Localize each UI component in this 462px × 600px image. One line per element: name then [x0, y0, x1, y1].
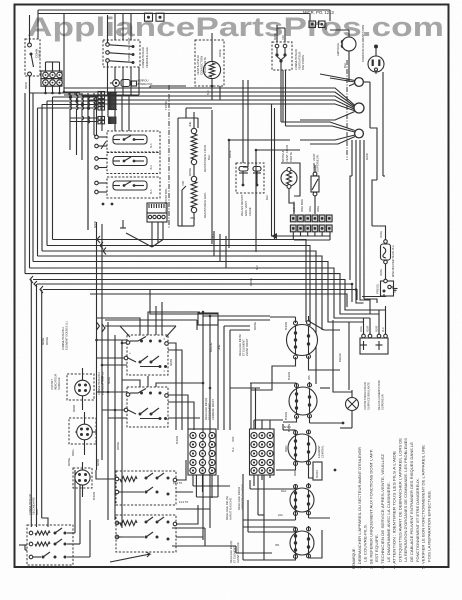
wire element central links	[283, 424, 322, 480]
label REGLAGE bottom	[229, 541, 240, 563]
wire element2 links	[230, 372, 343, 432]
wire bottom boxes links	[96, 460, 296, 560]
power relay RELAIS ALIMENTATION	[360, 310, 388, 354]
wire element1 loop	[251, 317, 340, 390]
mini circuit breaker	[372, 226, 395, 279]
relay K1	[95, 131, 160, 152]
wire press links	[360, 294, 386, 314]
oven control connector P1	[126, 203, 167, 247]
oven control boundary	[164, 85, 169, 228]
secondary switch COMMUTATEUR SECONDAIRE	[27, 494, 73, 565]
wire switch box risers	[96, 302, 203, 430]
node N	[354, 103, 364, 113]
infinite switch box SW2	[124, 387, 168, 427]
vent switch COMM. VENT.	[311, 153, 320, 214]
surface element bottom 2	[275, 513, 314, 560]
door switch S2	[156, 13, 164, 21]
wire secondary links	[67, 470, 150, 562]
wire centre risers	[203, 312, 270, 540]
wire connector arrow	[271, 232, 330, 240]
surface element AVANT DROIT	[287, 316, 341, 359]
surface element lamp E2	[69, 412, 96, 456]
label REGLAGE ARRIERE DROIT	[204, 398, 215, 420]
wire grid stems	[193, 420, 283, 498]
pilot lamp VOYANT	[340, 390, 359, 428]
wire upper riser bundle	[64, 43, 139, 310]
wire braid horizontals	[38, 97, 99, 122]
wire left riser staircase	[25, 76, 53, 274]
wire centre verticals	[212, 70, 300, 270]
oven fan motor MOTEUR VENT.	[281, 145, 300, 214]
diagram title MICRO PO. 1213	[303, 10, 334, 15]
wire main bus band	[25, 240, 386, 385]
node L2	[355, 129, 364, 138]
wire lower-left taps	[75, 290, 218, 432]
door switch S1	[145, 13, 153, 21]
wire latch stems	[108, 14, 140, 95]
wire node L2 bundle	[350, 140, 385, 299]
pressure connector PRESS.	[376, 279, 395, 296]
wire bottom element links	[193, 474, 330, 560]
oven broil element RESISTANCE GRIL	[181, 176, 207, 226]
bottom lamp element	[67, 458, 100, 500]
surface element lamp E1	[67, 368, 94, 412]
micro switch S3	[309, 21, 316, 28]
wire junction dots	[44, 85, 357, 472]
label COMMUTATEUR VERROUILLAGE	[141, 47, 149, 68]
labels relay column	[363, 380, 385, 410]
infinite switch box SW1	[124, 335, 168, 375]
terminal grid TB3	[250, 429, 275, 475]
wire lower-left risers	[31, 280, 122, 529]
power cord plug	[361, 25, 384, 72]
label COMMUTATEUR VENTILATEUR PAR PORTE	[294, 49, 305, 70]
connector strip	[290, 199, 333, 232]
bottom switch box SW3	[115, 471, 182, 505]
latch switch box	[103, 37, 140, 67]
wire upper feeders	[64, 80, 290, 167]
wire door fan stems	[277, 25, 286, 126]
label COMMUTATEUR ELEMENT DOUBLE	[61, 321, 105, 395]
relay K2	[95, 153, 160, 174]
wire junction chevrons	[30, 236, 106, 293]
ground symbol	[393, 289, 398, 293]
surface element CENTRAL	[276, 430, 325, 478]
label REGLAGE AVANT DROIT	[238, 334, 249, 356]
labels wire colours mid	[209, 278, 288, 420]
node L1	[355, 78, 370, 87]
convection fan motor	[195, 33, 224, 100]
wire TB1 stems	[30, 62, 81, 93]
notes REMARQUE	[352, 437, 431, 569]
oven lamp AMPOULE	[330, 30, 356, 82]
labels NOIR ROSE left	[41, 337, 49, 345]
wire fan to node L1	[320, 74, 355, 86]
wire plug drops	[370, 72, 383, 180]
micro switch S4	[319, 21, 329, 30]
wire oven column merges	[152, 231, 226, 268]
label NOIR	[24, 82, 28, 89]
door fan switch	[272, 42, 292, 70]
bottom switch box SW4	[115, 500, 188, 552]
surface element bottom 1	[281, 483, 314, 520]
broil relay box RELAIS GRIL	[236, 163, 264, 216]
label VOYANT SURFACE	[50, 374, 61, 390]
pin connector CN2	[98, 117, 116, 125]
relay K3	[93, 177, 160, 228]
wire oven control	[150, 86, 212, 226]
wire centre pair	[265, 104, 275, 240]
oven switch COMM. FOUR	[25, 15, 42, 93]
wire fan to node N	[290, 88, 355, 120]
chassis boundary	[346, 60, 348, 160]
labels switch wires	[100, 359, 179, 450]
surface element ARRIERE DROIT	[283, 382, 317, 423]
wire top rail	[38, 10, 330, 43]
terminal block TB1	[41, 71, 62, 86]
wire bottom-left corner	[19, 545, 27, 550]
wire right loop	[333, 320, 352, 392]
terminal grid TB2	[188, 429, 216, 475]
wire fan to node L2	[281, 122, 355, 144]
labels grids	[225, 436, 245, 520]
label NOIR bundle	[365, 153, 369, 160]
interlock connector VERROU	[110, 79, 153, 87]
wire relay feeders	[356, 296, 386, 322]
wire braid verticals	[70, 93, 106, 230]
oven bake element RESISTANCE FOUR	[188, 112, 211, 177]
labels NOIR VIO	[273, 33, 285, 40]
pin connector CN1	[98, 92, 117, 111]
